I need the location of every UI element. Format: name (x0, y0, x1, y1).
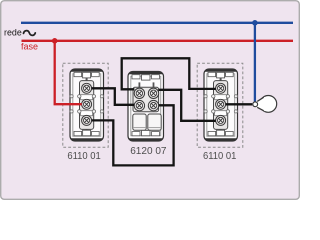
wire phase drop to switch S1 common (55, 41, 82, 104)
wire S1 top terminal to S2 bottom-left (92, 88, 135, 105)
terminal 3 of S1 (82, 115, 92, 125)
wire fase (phase bus) (22, 40, 294, 42)
wire S3 common to lamp (226, 103, 253, 105)
svg-text:rede: rede (4, 28, 22, 38)
wire neutral drop to lamp (254, 23, 256, 102)
terminal TL of S2 (134, 88, 144, 98)
switch S1 (6110 01) (70, 69, 104, 141)
rocker left (133, 114, 146, 130)
svg-text:6110 01: 6110 01 (67, 151, 101, 162)
dashed enclosure box S3 (197, 63, 243, 147)
lamp (253, 96, 277, 113)
svg-text:6110 01: 6110 01 (203, 151, 237, 162)
rocker right (148, 114, 161, 130)
wire rede (neutral bus) (21, 22, 293, 24)
node on fase bus (52, 38, 58, 44)
terminal BL of S2 (134, 100, 144, 110)
switch S3 (6110 01) (204, 69, 238, 141)
background panel (0, 0, 300, 200)
terminal BR of S2 (148, 100, 158, 110)
terminal TR of S2 (148, 88, 158, 98)
switch S2 (6120 07) (128, 71, 164, 141)
wire S2 top-right to S3 bottom (159, 90, 216, 121)
svg-text:6120 07: 6120 07 (130, 146, 167, 157)
wire S2 top-left to S3 top (top run) (122, 58, 216, 89)
node on rede bus (252, 20, 258, 26)
AC symbol (24, 31, 36, 36)
terminal 3 of S3 (216, 115, 226, 125)
terminal 2 of S3 (common) (216, 99, 226, 109)
wire S1 bottom terminal to S2 bottom-right (bottom run) (92, 105, 174, 165)
dashed enclosure box S1 (63, 63, 108, 147)
terminal 2 of S1 (common) (82, 99, 92, 109)
svg-text:fase: fase (21, 41, 38, 51)
terminal 1 of S3 (216, 83, 226, 93)
terminal 1 of S1 (82, 83, 92, 93)
frame border (1, 1, 300, 200)
